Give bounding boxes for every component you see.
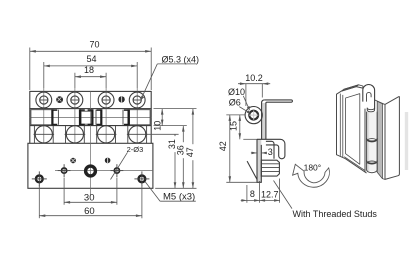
leaf section shading — [262, 103, 266, 139]
svg-text:180°: 180° — [304, 162, 322, 172]
plate hole Ø3 left — [58, 164, 71, 177]
bar C — [100, 109, 102, 125]
back hook diagonals — [344, 85, 363, 90]
dim 54 — [44, 54, 137, 88]
M5 stud center — [86, 166, 96, 176]
dim 10 — [153, 109, 164, 131]
screw hole 2 — [67, 92, 83, 108]
diagonal line at stud base — [247, 161, 257, 180]
lower leaf — [257, 139, 261, 182]
dim 3 — [251, 147, 273, 157]
label Ø10 — [228, 87, 250, 111]
svg-text:8: 8 — [250, 189, 255, 199]
svg-text:With Threaded Studs: With Threaded Studs — [293, 209, 378, 219]
svg-text:Ø10: Ø10 — [228, 87, 245, 97]
knuckle pin inner ring — [249, 111, 258, 120]
extension lines left — [226, 114, 245, 116]
dim 30 — [64, 178, 117, 205]
M5 stud corner right — [134, 171, 149, 186]
dim 60 — [39, 185, 142, 218]
label Ø5.3 (x4) — [141, 55, 199, 101]
screw hole 1 — [36, 92, 52, 108]
svg-text:Ø6: Ø6 — [229, 97, 241, 107]
svg-text:70: 70 — [89, 40, 99, 50]
svg-text:10: 10 — [153, 121, 163, 131]
svg-text:47: 47 — [185, 147, 195, 157]
plate hole Ø3 right — [111, 164, 124, 177]
right leaf face — [385, 97, 399, 180]
screw column centerlines — [43, 88, 45, 143]
knuckle division lower — [367, 161, 378, 165]
right side extension lines — [154, 108, 197, 110]
bottom dims 8 / 12.7 — [241, 179, 280, 203]
svg-text:Ø5.3 (x4): Ø5.3 (x4) — [162, 55, 200, 65]
svg-text:2-Ø3: 2-Ø3 — [127, 145, 144, 154]
plate small screw symbol left — [70, 158, 76, 164]
knuckle legs — [33, 126, 35, 144]
pin curl (candy cane) — [363, 84, 375, 108]
svg-text:3: 3 — [268, 147, 273, 157]
zone B bottom line — [30, 125, 151, 127]
knuckle circle 4 — [129, 126, 146, 143]
dim 42 — [218, 115, 231, 182]
svg-text:42: 42 — [218, 141, 228, 151]
svg-text:60: 60 — [84, 206, 95, 217]
gray gap strip between barrel and right leaf — [377, 101, 382, 178]
hole row centerline — [55, 170, 153, 172]
svg-text:15: 15 — [229, 121, 239, 131]
label With Threaded Studs — [274, 181, 378, 220]
svg-text:30: 30 — [84, 193, 95, 204]
dim 47 — [185, 109, 198, 189]
left leaf frame line 2 — [339, 94, 341, 156]
dim 70 — [30, 40, 151, 91]
bottom edge inner line — [344, 157, 365, 171]
left leaf top roof — [341, 85, 358, 91]
main vertical centerline — [90, 91, 92, 195]
pin cap ellipse — [367, 108, 374, 112]
body band (top plate edge) — [30, 91, 151, 108]
small screw symbol band right — [118, 96, 124, 102]
threaded stud block — [261, 160, 279, 176]
barrel body — [367, 112, 378, 173]
plate small screw symbol right — [105, 158, 111, 164]
screw hole 3 — [98, 92, 114, 108]
label Ø6 — [229, 97, 251, 113]
screw hole 4 — [129, 92, 145, 108]
left leaf frame line 3 — [342, 95, 344, 157]
knuckle barrel outer circle — [245, 107, 262, 124]
M5 stud corner left — [32, 171, 47, 186]
barrel shading — [367, 112, 378, 171]
knuckle circle 2 — [66, 126, 83, 143]
zone B centerline — [30, 116, 151, 118]
svg-text:18: 18 — [84, 65, 94, 75]
left leaf outer face — [337, 87, 367, 173]
180 degree rotation arrow — [293, 162, 330, 187]
top arm of leaf — [264, 100, 292, 102]
svg-text:12.7: 12.7 — [261, 189, 279, 199]
upper leaf verticals — [262, 100, 265, 139]
lower plate — [28, 143, 153, 188]
label 2-Ø3 — [111, 145, 144, 180]
knuckle circle 3 — [98, 126, 115, 143]
zone B side edges / wire — [29, 109, 31, 144]
pocket B — [81, 111, 92, 124]
svg-text:36: 36 — [175, 145, 185, 155]
dim 31 — [167, 134, 180, 188]
svg-text:10.2: 10.2 — [245, 73, 263, 83]
dim 18 — [75, 65, 106, 88]
right leaf front edge — [382, 104, 385, 180]
label M5 (x3) — [145, 182, 196, 203]
knuckle circle 1 — [35, 126, 52, 143]
strip top V line — [374, 100, 384, 105]
folded leaf hook — [257, 139, 285, 159]
dim 15 — [229, 115, 242, 139]
left leaf opening — [346, 94, 360, 165]
svg-text:54: 54 — [86, 54, 96, 64]
pocket D — [130, 110, 151, 125]
knuckle division upper — [367, 138, 378, 142]
dim 10.2 — [238, 73, 270, 106]
right faint shadow — [405, 112, 408, 170]
small screw symbol band left — [56, 96, 63, 103]
pocket A — [31, 110, 52, 125]
dim 36 — [175, 126, 188, 189]
